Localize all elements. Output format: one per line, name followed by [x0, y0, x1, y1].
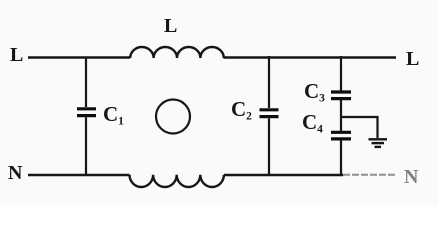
svg-text:C2: C2 [231, 97, 252, 123]
ground [369, 139, 388, 147]
svg-text:L: L [164, 15, 177, 37]
svg-text:L: L [406, 48, 419, 70]
svg-text:C4: C4 [302, 110, 323, 136]
wire (C3/C4 midpoint to ground branch) [341, 117, 378, 138]
wire (top: choke to right terminal) [224, 56, 397, 58]
wire (bottom: C3/C4 branch to right terminal, faded in scan) [343, 174, 396, 176]
wire (bottom: choke to C3/C4 branch) [224, 174, 343, 176]
wire (top: left terminal to choke) [28, 56, 130, 58]
node N (left neutral terminal label) [8, 162, 23, 184]
svg-text:N: N [8, 162, 23, 184]
choke core (circle) [156, 100, 190, 134]
svg-text:C1: C1 [103, 102, 124, 128]
inductor L (common-mode choke, top winding) [130, 15, 224, 58]
capacitor C1 [77, 57, 124, 176]
node L (left line terminal label) [10, 44, 23, 66]
svg-text:C3: C3 [304, 79, 325, 105]
svg-text:L: L [10, 44, 23, 66]
svg-text:N: N [404, 166, 419, 188]
node N (right neutral terminal label) [404, 166, 419, 188]
capacitor C2 [231, 56, 279, 176]
capacitor C3 [304, 56, 351, 105]
capacitor C4 [302, 100, 351, 176]
node L (right line terminal label) [406, 48, 419, 70]
wire (bottom: left terminal to choke) [28, 174, 130, 176]
inductor (common-mode choke, bottom winding) [130, 175, 224, 187]
